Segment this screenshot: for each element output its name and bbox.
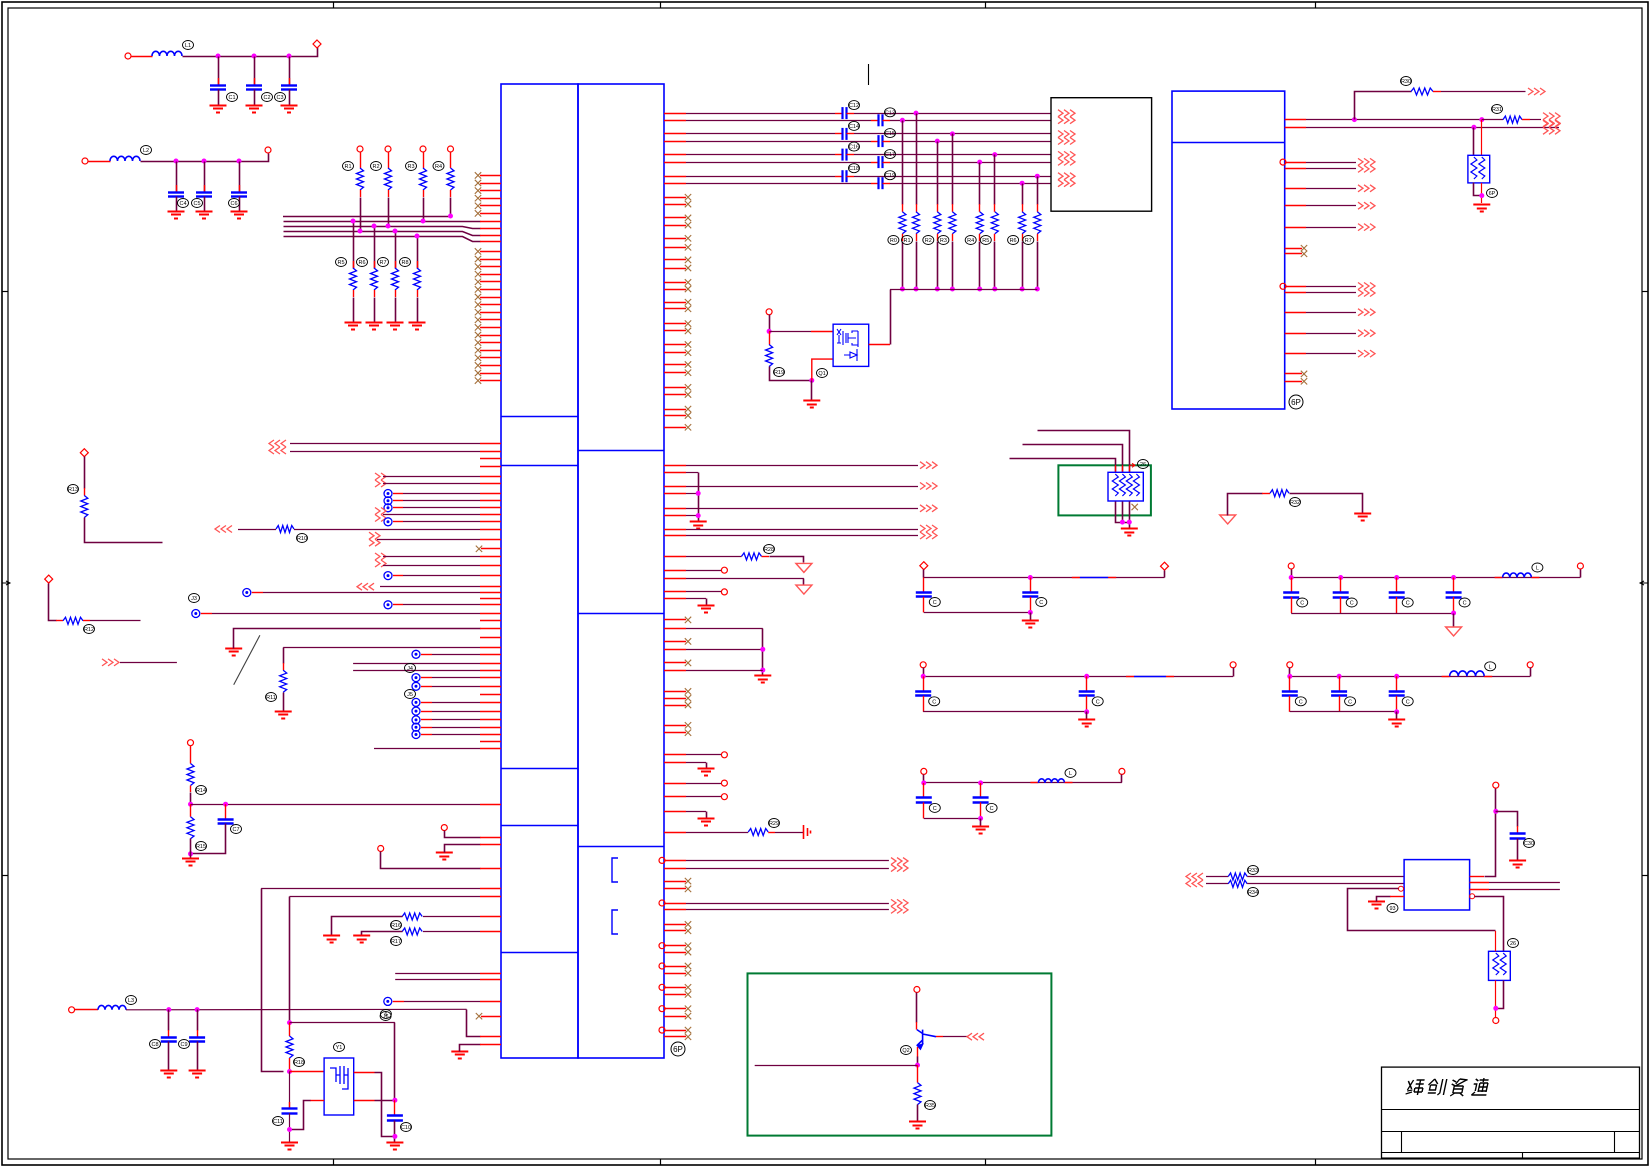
capacitor C9 red lead: [197, 1030, 199, 1037]
crystal top-right wire: [375, 1073, 395, 1137]
no-connect slash: [234, 635, 260, 685]
IC right n.c. stub y268: [664, 268, 686, 270]
label L2: [141, 146, 152, 155]
junction RP3: [1493, 1006, 1498, 1011]
capacitor C3 red lead: [289, 78, 291, 85]
no-connect X right y364: [685, 361, 691, 367]
label R31: [1492, 105, 1503, 114]
cap row3 mid bottom wire: [924, 818, 981, 820]
no-connect X for left pin row 13: [475, 263, 481, 269]
cap row1 ferrite lead a: [1072, 577, 1080, 579]
termination R26 bottom lead: [1022, 234, 1024, 241]
series capacitor C19 lead: [871, 183, 878, 185]
IC pin net E5 y592: [263, 592, 501, 594]
net T5 wire to cap: [686, 154, 835, 156]
net G2 red lead: [1122, 465, 1124, 472]
label R7: [378, 258, 389, 267]
no-connect X for left pin row 3: [475, 187, 481, 193]
net PWR wire: [770, 557, 804, 563]
series capacitor C18 lead: [835, 176, 842, 178]
terminal J7 pin: [378, 846, 384, 852]
cap row2 mid capacitor 2: [1079, 692, 1095, 696]
Q1 gate red lead: [811, 331, 833, 333]
svg-text:R7: R7: [379, 260, 386, 266]
junction T7 drop: [1035, 174, 1040, 179]
no-connect X y952: [685, 949, 691, 955]
R29 right lead: [768, 832, 775, 834]
series capacitor C19 lead2: [883, 183, 891, 185]
IC right n.c. stub y1030: [664, 1030, 686, 1032]
svg-text:C: C: [1463, 601, 1467, 607]
wire cap C4 bottom lead: [176, 197, 178, 212]
IC right n.c. stub y364: [664, 364, 686, 366]
cap row2 mid ferrite lead b: [1166, 676, 1174, 678]
connector socket S2: [412, 674, 420, 682]
wire R7 to ground: [395, 298, 397, 323]
IC right pin net T7 red lead: [664, 176, 686, 178]
resistor R11: [280, 670, 287, 692]
capacitor C4 red lead: [176, 185, 178, 192]
U3 pin net y353: [1306, 353, 1356, 355]
svg-text:C: C: [1350, 601, 1354, 607]
no-connect X for left pin row 4: [475, 195, 481, 201]
no-connect X y663: [685, 660, 691, 666]
ground for C30: [1509, 861, 1526, 868]
U3 no-connect X y253: [1301, 251, 1307, 257]
wire R2 to bus: [388, 198, 390, 227]
RP2 junction b: [1127, 520, 1132, 525]
terminal for pull-up R1: [357, 146, 363, 152]
IC right n.c. stub y952: [664, 952, 686, 954]
svg-text:C14: C14: [849, 124, 859, 130]
no-connect X right y394: [685, 391, 691, 397]
U3 output arrow y205: [1358, 202, 1375, 209]
cap row1 ferrite segment: [1080, 577, 1108, 579]
cap row2 right junction 3: [1394, 674, 1399, 679]
wire R5 to ground: [353, 298, 355, 323]
cap row1 capacitor 2: [1022, 593, 1038, 597]
IC right pin net PWR2 y579: [664, 578, 804, 580]
no-connect X for left pin row 15: [475, 279, 481, 285]
junction QJ2: [809, 378, 814, 383]
label R32: [1290, 498, 1301, 507]
net G1 red lead: [1129, 465, 1131, 472]
cap row2 mid left terminal: [920, 662, 926, 668]
label C8: [150, 1040, 161, 1049]
svg-text:R34: R34: [1248, 890, 1258, 896]
IC pin net V1 y973: [395, 973, 501, 975]
resistor R28: [742, 553, 762, 560]
cap row3 mid left terminal wire: [923, 775, 925, 783]
svg-text:C7: C7: [232, 827, 239, 833]
U4 right pin1 red lead: [1470, 876, 1484, 878]
input arrow <<< for net F: [215, 526, 232, 533]
U3 pin net y227: [1306, 227, 1356, 229]
pull-up R4 top lead: [450, 152, 452, 168]
cap row2 mid right terminal wire: [1233, 668, 1235, 677]
input arrow <<< for net PAIR1: [269, 440, 286, 454]
R11 to ground wire: [283, 693, 285, 712]
pull-up R4 bottom lead: [450, 190, 452, 197]
svg-text:Y1: Y1: [336, 1045, 343, 1051]
IC U1 left pin row 16 (n.c.): [480, 289, 501, 291]
IC left pin stub y458.9: [480, 458, 501, 460]
ground for net R: [436, 853, 453, 860]
connector socket E8: [384, 997, 392, 1005]
IC pin socket row y677: [432, 677, 501, 679]
IC pin net E6 y605: [403, 604, 501, 606]
series capacitor C15 lead2: [883, 141, 891, 143]
label R4: [433, 162, 444, 171]
svg-text:R5: R5: [982, 238, 989, 244]
net M wire: [120, 662, 177, 664]
label C6: [229, 199, 240, 208]
junction V1b: [1479, 117, 1484, 122]
label L3: [126, 996, 137, 1005]
U3 n.c. stub y373: [1285, 373, 1302, 375]
resistor R17: [402, 928, 422, 935]
cap row2 right inductor: [1450, 671, 1485, 676]
connector socket S6: [412, 716, 420, 724]
label R10: [297, 534, 308, 543]
no-connect X right y415: [685, 412, 691, 418]
no-connect X for left pin row 23: [475, 339, 481, 345]
resistor R31: [1503, 116, 1522, 123]
ground for C1: [210, 106, 227, 113]
U3 output arrow y227: [1358, 224, 1375, 231]
U4 right pin4 bubble: [1470, 894, 1475, 899]
net T3 wire to cap: [686, 133, 835, 135]
IC U1 left pin row 19 (n.c.): [480, 312, 501, 314]
label C30: [1524, 839, 1535, 848]
terminal right small 5: [721, 794, 727, 800]
RP1 bottom left wire: [1474, 183, 1482, 196]
output arrow >>> y508: [920, 505, 937, 512]
terminal J1: [0, 0, 1, 1]
no-connect X for left pin row 18: [475, 301, 481, 307]
wire cap C9 top lead: [197, 1010, 199, 1031]
IC right pin gnd net y515: [664, 515, 698, 517]
U3 pin red lead y188: [1285, 188, 1306, 190]
ground for R8: [409, 323, 426, 330]
junction XJ5: [287, 1127, 292, 1132]
label C5: [192, 199, 203, 208]
IC right n.c. stub y394: [664, 394, 686, 396]
svg-text:C18: C18: [849, 166, 859, 172]
cap row2 mid C1 bottom lead: [923, 696, 925, 712]
junction R3 bus: [421, 219, 426, 224]
cap row1 right capacitor 2: [1333, 593, 1349, 598]
U3 pin red lead y162: [1285, 162, 1306, 164]
U3 output arrows pair y289: [1358, 283, 1375, 297]
junction QJ1: [767, 329, 772, 334]
terminal right small 4: [721, 780, 727, 786]
wire cap C1 top lead: [218, 57, 220, 86]
cap row2 right C1 bottom lead: [1289, 696, 1291, 712]
no-connect X right y238: [685, 235, 691, 241]
net T6 drop wire: [979, 163, 981, 205]
svg-text:R8: R8: [401, 260, 408, 266]
svg-text:R29: R29: [769, 821, 779, 827]
label R25: [980, 236, 991, 245]
RP2 bottom wire 3: [1129, 502, 1131, 529]
label L1: [183, 41, 194, 50]
label R6: [357, 258, 368, 267]
wire cap C2 bottom lead: [254, 90, 256, 106]
net T2 drop wire: [902, 121, 904, 205]
series capacitor C16: [843, 149, 847, 161]
IC right pin net OUT3 y535: [664, 535, 918, 537]
R15 top lead: [190, 804, 192, 817]
svg-text:C4: C4: [179, 201, 186, 207]
cap row2 mid bottom wire: [923, 711, 1086, 713]
U3 pin red lead y312: [1285, 312, 1306, 314]
cap row2 mid ground: [1078, 720, 1095, 727]
IC right n.c. stub y698: [664, 698, 686, 700]
resistor R33: [1228, 873, 1247, 880]
junction P3: [188, 851, 193, 856]
bus line net D4: [284, 237, 481, 242]
RP3 resistor 1: [1493, 953, 1499, 975]
U3 pin net y168: [1306, 168, 1356, 170]
IC right pin net y628: [664, 628, 763, 630]
svg-text:C10: C10: [401, 1125, 411, 1131]
no-connect X for left pin row 28: [475, 377, 481, 383]
cap row3 mid right terminal: [1119, 768, 1125, 774]
title text character 4 (Tong): [1471, 1078, 1490, 1095]
no-connect X right y323: [685, 320, 691, 326]
label R30: [1401, 77, 1412, 86]
terminal for pull-up R3: [420, 146, 426, 152]
junction T1 drop: [914, 111, 919, 116]
connector socket S5: [412, 707, 420, 715]
termination R22 top lead: [937, 204, 939, 212]
svg-text:26: 26: [1140, 462, 1146, 468]
no-connect X y973: [685, 970, 691, 976]
IC U1 left pin row 27 (n.c.): [480, 373, 501, 375]
socket E2 lead: [393, 500, 403, 502]
cap row2 mid label C1: [929, 697, 940, 706]
inductor L2: [110, 156, 140, 161]
IC pin net P y804: [191, 804, 502, 806]
termination resistor R23: [949, 212, 956, 234]
IC right n.c. stub y197: [664, 197, 686, 199]
cap row2 mid right terminal: [1230, 662, 1236, 668]
IC U1 left pin row 14 (n.c.): [480, 274, 501, 276]
label C17: [885, 150, 896, 159]
junction T3 drop: [950, 131, 955, 136]
cap row1 mid top bus: [924, 577, 1165, 579]
no-connect X y881: [685, 878, 691, 884]
cap row3 mid capacitor 2: [973, 798, 989, 803]
bus line net D0: [283, 216, 451, 218]
svg-text:6: 6: [384, 1012, 387, 1018]
svg-text:C5: C5: [193, 201, 200, 207]
arrow >>> top right 2: [1543, 113, 1560, 127]
series capacitor C17 lead2: [883, 162, 891, 164]
cap row1 right C1 bottom lead: [1291, 597, 1293, 613]
IC right pin net y649: [664, 649, 763, 651]
series capacitor C15: [879, 135, 883, 147]
terminal TP3: [45, 575, 53, 583]
pull-down R6 top lead: [374, 261, 376, 268]
label R11: [266, 693, 277, 702]
cap row2 right left terminal wire: [1289, 668, 1291, 677]
connector socket S3: [412, 682, 420, 690]
junction R21 bus: [914, 287, 919, 292]
svg-text:Q2: Q2: [902, 1048, 909, 1054]
net LC wire: [126, 1008, 467, 1011]
svg-text:C19: C19: [885, 173, 895, 179]
Q1 internal symbol: [837, 329, 858, 361]
bus pin red lead D1: [480, 221, 501, 223]
svg-text:R0: R0: [890, 238, 897, 244]
no-connect X y987: [685, 984, 691, 990]
net T7 drop wire: [1037, 177, 1039, 205]
no-connect X for left pin row 17: [475, 294, 481, 300]
pull-down R5 top lead: [353, 261, 355, 268]
IC pin net B5 y557: [383, 556, 501, 558]
no-connect X y966: [685, 963, 691, 969]
cap row2 right C3 top lead: [1396, 676, 1398, 691]
IC pin socket row y727: [432, 727, 501, 729]
svg-text:R35: R35: [925, 1103, 935, 1109]
capacitor C30: [1510, 834, 1526, 839]
U3 n.c. stub y381: [1285, 381, 1302, 383]
net T1 wire to box: [854, 113, 1051, 115]
svg-text:C11: C11: [273, 1119, 283, 1125]
svg-text:L: L: [1069, 771, 1072, 777]
pin base circle y860: [659, 857, 665, 863]
title block outer: [1382, 1067, 1640, 1158]
RP2 resistor 2: [1119, 474, 1125, 496]
junction T2 drop: [900, 118, 905, 123]
IC pin socket row y654: [432, 654, 501, 656]
IC right n.c. stub y308: [664, 308, 686, 310]
cap row2 right label C3: [1402, 697, 1413, 706]
net T3 wire to box: [854, 133, 1051, 135]
IC right n.c. stub y302: [664, 302, 686, 304]
cap row3 mid gnd junction: [978, 816, 983, 821]
bus line net D1: [284, 221, 481, 223]
capacitor C2: [246, 86, 262, 90]
IC pin net W y1037: [480, 1036, 501, 1038]
junction n1 b: [252, 54, 257, 59]
IC right n.c. stub y289: [664, 289, 686, 291]
cap row1 C0a lead: [923, 578, 925, 593]
receiver arrows in U2 pair 4: [1058, 173, 1075, 187]
resistor R16: [402, 913, 422, 920]
svg-text:C13: C13: [885, 110, 895, 116]
input arrows <<< to U4: [1186, 873, 1203, 887]
ground for net X: [451, 1052, 468, 1059]
connector socket E3: [384, 518, 392, 526]
net W2 wire b: [1247, 883, 1404, 885]
wire bus to R5: [353, 222, 355, 269]
junction R26 bus: [1020, 287, 1025, 292]
IC pin net E4 y576: [403, 575, 501, 577]
IC U1 left column divider y=825: [501, 825, 578, 827]
R19 bottom wire: [770, 367, 812, 381]
no-connect X right y217: [685, 215, 691, 221]
junction U4 cap: [1493, 809, 1498, 814]
capacitor C5 red lead: [204, 185, 206, 192]
cap row2 right bottom wire: [1290, 711, 1397, 713]
svg-text:C: C: [990, 806, 994, 812]
input arrow <<< for net G: [357, 583, 374, 590]
RP2 resistor 4: [1133, 474, 1139, 496]
termination resistor R22: [934, 212, 941, 234]
IC pin net B6 y565: [383, 565, 501, 567]
label Y1: [334, 1043, 345, 1052]
svg-text:C: C: [1299, 699, 1303, 705]
C7 top lead: [225, 804, 227, 819]
IC right n.c. stub y987: [664, 987, 686, 989]
R13 top lead: [84, 488, 86, 496]
no-connect X y888: [685, 886, 691, 892]
R23 wire to bus: [952, 242, 954, 290]
RP1 left wire: [1473, 128, 1475, 156]
wire J2 to L2: [89, 161, 111, 163]
IC U1 left column divider y=768: [501, 768, 578, 770]
ground for R15/C7: [182, 859, 199, 866]
ground for R7: [387, 323, 404, 330]
IC U1 designator 6P: [671, 1042, 685, 1056]
svg-text:L: L: [1536, 566, 1539, 572]
net XTAL2 down wire: [289, 897, 291, 1023]
label R18: [294, 1058, 305, 1067]
C10 bottom wire: [394, 1121, 396, 1143]
cap row2 right capacitor 1: [1282, 692, 1298, 696]
IC pin stub y1016: [481, 1016, 501, 1018]
resistor R35: [914, 1083, 921, 1105]
cap row2 right C2 bottom lead: [1339, 696, 1341, 712]
IC U1 left pin row 25 (n.c.): [480, 357, 501, 359]
no-connect X y1030: [685, 1027, 691, 1033]
Q2 collector red lead: [916, 1022, 918, 1030]
label C7: [231, 825, 242, 834]
termination R27 top lead: [1037, 204, 1039, 212]
pull-down R7 bottom lead: [395, 290, 397, 297]
no-connect X y705: [685, 702, 691, 708]
label R8: [400, 258, 411, 267]
no-connect X for left pin row 22: [475, 332, 481, 338]
cap row2 right top bus wire: [1290, 676, 1530, 678]
ground for C3: [281, 106, 298, 113]
label R3: [406, 162, 417, 171]
ground for R5: [345, 323, 362, 330]
label C15: [885, 129, 896, 138]
IC right n.c. stub y217: [664, 217, 686, 219]
net T7 wire to box: [854, 176, 1051, 178]
no-connect X for left pin row 11: [475, 248, 481, 254]
net T8 wire to cap: [686, 183, 871, 185]
net W2 wire a: [1206, 883, 1228, 885]
capacitor C7: [218, 820, 234, 824]
terminal J9 pin: [766, 309, 772, 315]
label U4 gnd: [1387, 904, 1398, 913]
crystal right vertical: [394, 1023, 396, 1101]
U3 no-connect X y381: [1301, 378, 1307, 384]
IC U1 internal bracket 2: [612, 910, 618, 934]
receiver arrows in U2 pair 3: [1058, 151, 1075, 165]
cap row1 bottom wire: [924, 612, 1031, 614]
U3 pin red lead y353: [1285, 353, 1306, 355]
svg-text:C: C: [933, 806, 937, 812]
R31 right lead: [1522, 119, 1530, 121]
termination resistor R27: [1034, 212, 1041, 234]
IC U1 left pin row 21 (n.c.): [480, 327, 501, 329]
